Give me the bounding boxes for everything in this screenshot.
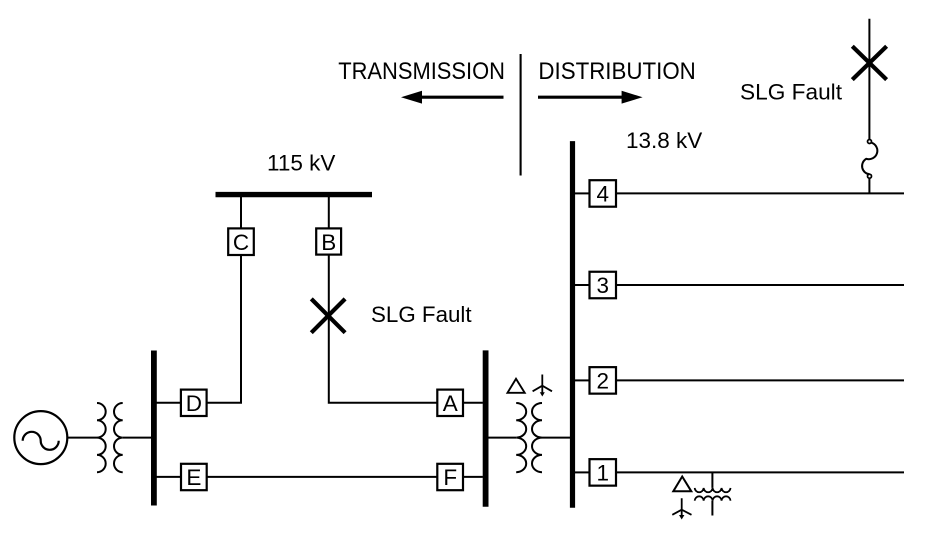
divider line between transmission and distribution — [520, 54, 522, 176]
label TRANSMISSION — [338, 58, 505, 85]
svg-text:SLG Fault: SLG Fault — [740, 79, 842, 104]
wire transformer T2 to 13.8 kV bus — [542, 437, 570, 439]
breaker 2 — [590, 367, 617, 394]
wire breaker D up to breaker C — [207, 255, 241, 403]
arrow pointing left (transmission side) — [401, 91, 504, 104]
wire 115 kV bus to breaker B — [328, 195, 330, 228]
delta winding symbol of T2 — [508, 379, 525, 393]
svg-text:B: B — [321, 230, 336, 255]
breaker B — [316, 228, 341, 254]
svg-text:115 kV: 115 kV — [267, 151, 335, 176]
label SLG Fault (top right feeder fault) — [740, 79, 842, 104]
breaker C — [228, 228, 254, 255]
wire receiving bus to transformer T2 — [488, 437, 516, 439]
grounded-wye winding symbol of T2 — [533, 375, 552, 397]
breaker F — [437, 464, 463, 490]
fuse cutout on feeder 4 lateral — [862, 140, 877, 179]
wire generator bus to breaker D — [157, 402, 181, 404]
svg-text:13.8 kV: 13.8 kV — [626, 128, 702, 153]
delta winding symbol of distribution transformer — [673, 477, 691, 492]
wire fuse to feeder 4 — [868, 178, 870, 193]
label 13.8 kV — [626, 128, 702, 153]
arrow pointing right (distribution side) — [538, 91, 643, 104]
wire feeder 4 — [616, 192, 904, 194]
wire 13.8 kV bus to breaker 1 — [575, 471, 590, 473]
wire transformer T1 to generator bus — [123, 437, 152, 439]
svg-text:DISTRIBUTION: DISTRIBUTION — [538, 58, 695, 85]
wire breaker F to receiving bus — [463, 476, 483, 478]
wire feeder 1 — [616, 471, 904, 473]
wire feeder 2 — [616, 379, 904, 381]
label SLG Fault (transmission line fault) — [371, 302, 472, 327]
bus: 115 kV transmission bus — [216, 192, 373, 197]
svg-text:TRANSMISSION: TRANSMISSION — [338, 58, 505, 85]
svg-text:C: C — [233, 230, 249, 255]
wire 13.8 kV bus to breaker 4 — [575, 192, 590, 194]
bus: receiving station bus — [483, 350, 489, 506]
transformer T1 (generator step-up) — [97, 403, 123, 472]
breaker 1 — [590, 459, 617, 486]
wire distribution transformer secondary lead — [711, 501, 713, 516]
bus: generator station bus — [151, 351, 157, 506]
svg-text:1: 1 — [597, 461, 610, 486]
label 115 kV — [267, 151, 335, 176]
wire 13.8 kV bus to breaker 2 — [575, 379, 590, 381]
generator G — [14, 411, 67, 464]
wire breaker C to 115 kV bus — [240, 195, 242, 228]
bus: 13.8 kV distribution bus — [570, 141, 575, 508]
grounded-wye winding symbol of distribution transformer — [672, 498, 691, 519]
fault X on feeder 4 lateral — [852, 46, 886, 79]
svg-text:D: D — [186, 391, 202, 416]
wire breaker E to breaker F — [207, 476, 438, 478]
breaker 4 — [590, 180, 617, 207]
breaker A — [437, 390, 463, 416]
svg-text:2: 2 — [597, 369, 610, 394]
wire feeder 3 — [616, 284, 904, 286]
svg-text:SLG Fault: SLG Fault — [371, 302, 472, 327]
distribution transformer on feeder 1 (delta - grounded wye) — [695, 488, 731, 501]
breaker D — [181, 390, 207, 416]
svg-text:4: 4 — [597, 182, 610, 207]
wire feeder 4 riser to fused cutout — [868, 19, 870, 140]
svg-text:E: E — [186, 465, 201, 490]
wire generator bus to breaker E — [157, 476, 182, 478]
svg-text:F: F — [443, 465, 457, 490]
svg-text:A: A — [443, 391, 458, 416]
wire breaker B down to breaker A (faulted line) — [329, 255, 438, 403]
wire generator to transformer T1 — [67, 437, 97, 439]
svg-text:3: 3 — [597, 273, 610, 298]
wire breaker A to receiving bus — [463, 402, 483, 404]
breaker E — [181, 464, 207, 490]
wire 13.8 kV bus to breaker 3 — [575, 284, 590, 286]
label DISTRIBUTION — [538, 58, 695, 85]
transformer T2 (delta - grounded wye) — [516, 403, 542, 472]
wire feeder 1 tap to distribution transformer — [711, 472, 713, 488]
fault X on transmission line — [311, 299, 345, 333]
breaker 3 — [590, 272, 617, 299]
